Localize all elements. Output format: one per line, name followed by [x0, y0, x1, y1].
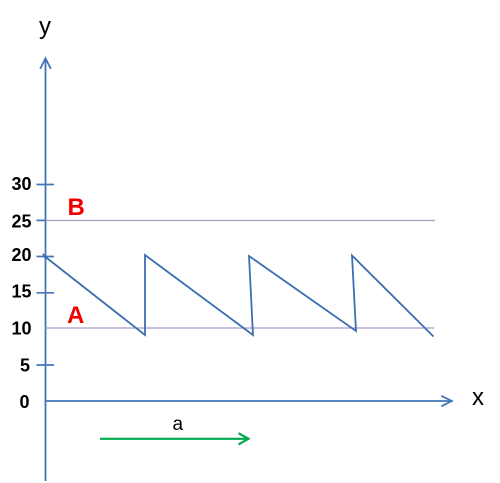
svg-text:5: 5 — [20, 356, 30, 376]
svg-text:B: B — [68, 194, 85, 221]
svg-text:x: x — [472, 384, 484, 411]
tick 30 — [37, 184, 55, 186]
svg-text:20: 20 — [11, 245, 31, 265]
y-axis — [45, 58, 47, 481]
tick 20 — [37, 256, 55, 258]
curve start hook mark — [43, 254, 46, 257]
svg-text:a: a — [173, 414, 184, 435]
tick 15 — [37, 292, 55, 294]
svg-text:10: 10 — [11, 319, 31, 339]
gridline at y=10 (level A) — [46, 327, 435, 329]
green arrow line (a) — [100, 438, 248, 440]
svg-text:15: 15 — [11, 282, 31, 302]
x-axis — [46, 400, 451, 402]
tick 5 — [37, 364, 55, 366]
green arrowhead — [239, 433, 249, 444]
gridline at y=25 (level B) — [46, 220, 436, 222]
sawtooth curve — [46, 255, 434, 337]
y-axis arrowhead — [40, 58, 51, 69]
tick 25 (left half) — [37, 219, 46, 221]
x-axis arrowhead — [441, 396, 452, 407]
svg-text:25: 25 — [11, 212, 31, 232]
svg-text:A: A — [67, 302, 84, 329]
svg-text:0: 0 — [19, 392, 29, 412]
svg-text:y: y — [39, 13, 51, 40]
svg-text:30: 30 — [11, 174, 31, 194]
